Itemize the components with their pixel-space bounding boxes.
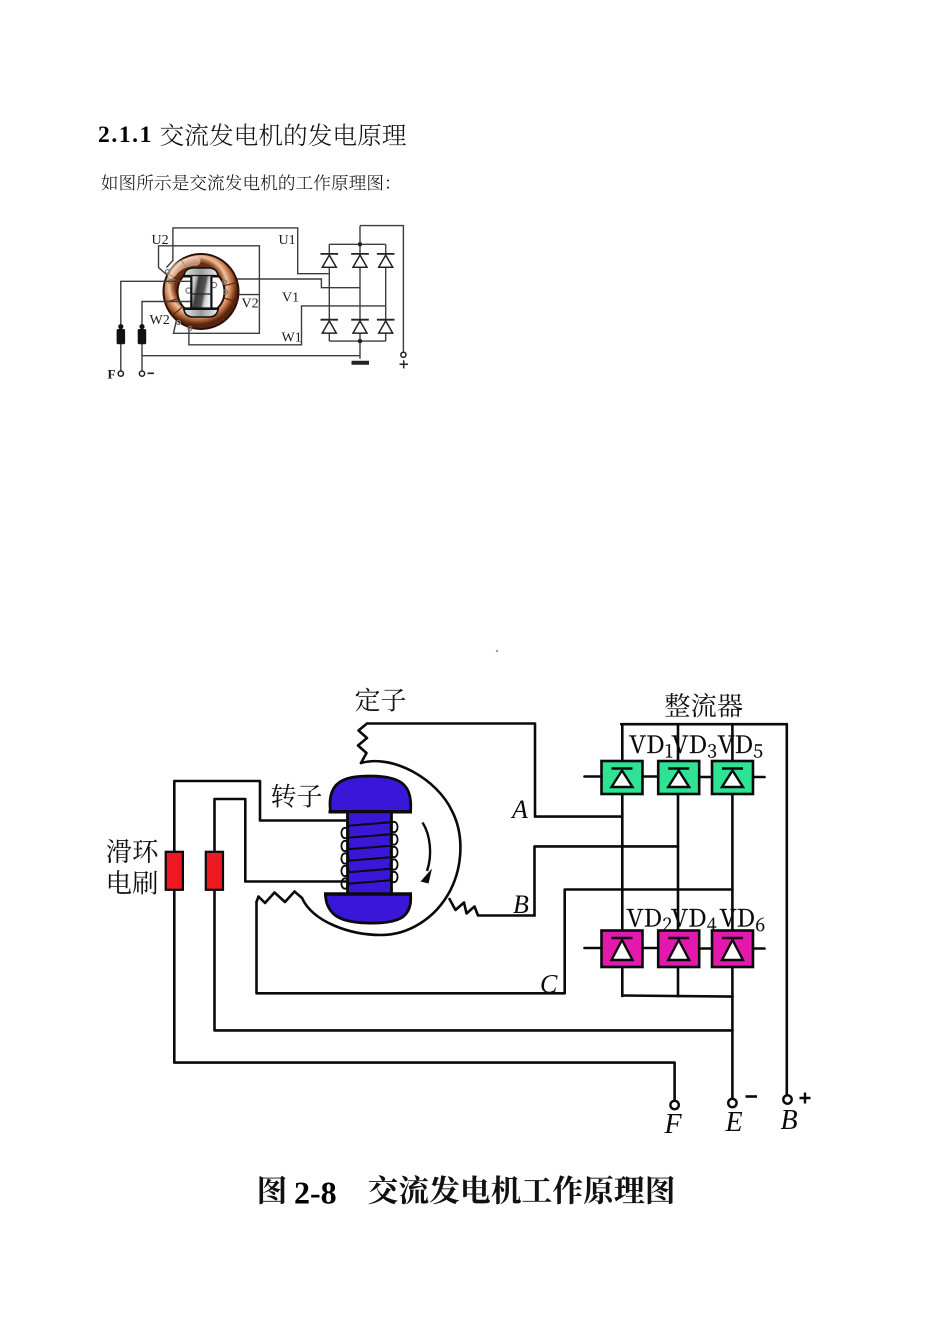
brush 2: [206, 852, 223, 890]
svg-text:W1: W1: [282, 331, 302, 346]
diode bridge top-middle: [351, 253, 369, 255]
diode bridge top-right: [377, 253, 395, 255]
svg-text:2.1.1: 2.1.1: [98, 122, 153, 148]
wire to terminal B plus: [785, 724, 788, 1095]
label VD2: [627, 909, 672, 931]
stator winding turns: [166, 270, 228, 331]
svg-text:C: C: [540, 970, 558, 999]
stator lead zigzag B: [450, 899, 535, 916]
wire brush 1 to rotor top: [174, 781, 348, 852]
rectifier bridge column 2: [359, 226, 361, 359]
wire brush minus to rotor: [142, 302, 191, 372]
terminal E: [728, 1099, 736, 1107]
label slip ring brush line 1: [107, 839, 158, 863]
wire brush 2 to terminal E: [215, 890, 733, 1030]
stator ring segment lines: [165, 260, 237, 316]
wire V2 lead: [238, 294, 260, 296]
rotor coil body: [348, 812, 392, 895]
svg-text:W2: W2: [150, 313, 170, 328]
heading title: [161, 123, 406, 146]
rotation arrow: [423, 823, 431, 872]
diode VD4: [658, 931, 699, 968]
stator winding arc: [302, 761, 460, 935]
svg-text:2-8: 2-8: [294, 1175, 337, 1211]
wire C to VD5 column: [257, 890, 733, 994]
diode bridge bottom-middle: [351, 319, 369, 321]
label VD4: [671, 909, 716, 931]
svg-text:E: E: [725, 1107, 743, 1138]
wire A from stator top to VD1 column: [367, 724, 622, 817]
terminal minus: [139, 371, 144, 376]
diode VD1: [602, 761, 643, 794]
label stator (dingzi): [355, 688, 405, 712]
svg-text:A: A: [510, 795, 528, 824]
terminal B: [783, 1095, 791, 1103]
diode bridge top-left: [321, 253, 339, 255]
diode VD2: [602, 931, 643, 968]
ground symbol: [352, 361, 370, 365]
svg-text:B: B: [781, 1105, 798, 1136]
svg-text:U1: U1: [279, 233, 296, 248]
rotor core body: [191, 276, 212, 309]
svg-text:V1: V1: [282, 290, 299, 305]
bridge top bus: [329, 243, 385, 245]
terminal F: [670, 1101, 678, 1109]
bridge bottom bus: [329, 340, 385, 342]
diode bridge bottom-left: [321, 319, 339, 321]
rectifier frame top: [621, 723, 787, 726]
wire bottom bus to terminal E: [731, 997, 734, 1099]
VD column 1: [621, 724, 624, 996]
rotor core top cap: [184, 268, 218, 276]
svg-text:F: F: [664, 1109, 683, 1140]
terminal plus: [401, 352, 406, 357]
label VD5: [718, 736, 763, 758]
rectifier bridge column 3: [385, 244, 387, 341]
svg-text:F: F: [108, 367, 116, 382]
VD column 3: [731, 724, 734, 996]
label rotor (zhuanzi): [272, 784, 322, 808]
brush minus: [138, 329, 147, 344]
brush F (field): [117, 329, 126, 344]
rectifier bridge column 1: [328, 244, 330, 341]
rectifier bottom bus: [622, 996, 732, 997]
rotor coil loops right: [390, 822, 397, 832]
body paragraph: [101, 174, 389, 190]
diode bridge bottom-right: [377, 319, 395, 321]
label slip ring brush line 2: [109, 870, 157, 894]
wire brush 2 to rotor bottom: [215, 799, 347, 882]
junction dot bottom: [358, 339, 362, 343]
svg-text:B: B: [513, 890, 529, 919]
rotor coil loops left: [341, 828, 348, 838]
rotor core bottom cap: [184, 309, 218, 317]
wire brush F to rotor: [121, 281, 191, 371]
stator lead zigzag C: [257, 892, 303, 904]
label VD3: [672, 736, 716, 758]
wire V1 lead to bridge: [237, 279, 360, 288]
rotor coil top cap: [330, 776, 411, 812]
wire V2 loop: [159, 246, 260, 333]
label VD1: [629, 736, 672, 758]
svg-text:V2: V2: [242, 297, 259, 312]
diode row bus stubs top: [585, 775, 765, 778]
diode VD3: [658, 761, 699, 794]
wire U2 loop to U1 to bridge: [167, 228, 330, 274]
rotor coil bottom cap: [326, 894, 411, 923]
terminal F: [118, 371, 123, 376]
junction dot top: [358, 242, 362, 246]
label VD6: [720, 909, 765, 931]
wire B to VD3 column: [535, 846, 679, 915]
wire minus to ground bus: [142, 355, 360, 357]
stator ring core: [164, 254, 239, 329]
wire to plus terminal: [360, 226, 403, 353]
brush 1: [166, 852, 183, 890]
caption figure 2-8: [259, 1176, 285, 1205]
label rectifier (zhengliuqi): [665, 693, 742, 718]
stator lead zigzag top: [358, 724, 367, 764]
VD column 2: [677, 724, 680, 996]
wire W1 lead to bridge: [189, 306, 386, 345]
svg-text:U2: U2: [152, 233, 169, 248]
diode row bus stubs bottom: [585, 947, 765, 950]
diode VD5: [712, 761, 753, 794]
wire brush 1 to terminal F: [174, 890, 674, 1101]
diode VD6: [712, 931, 753, 968]
